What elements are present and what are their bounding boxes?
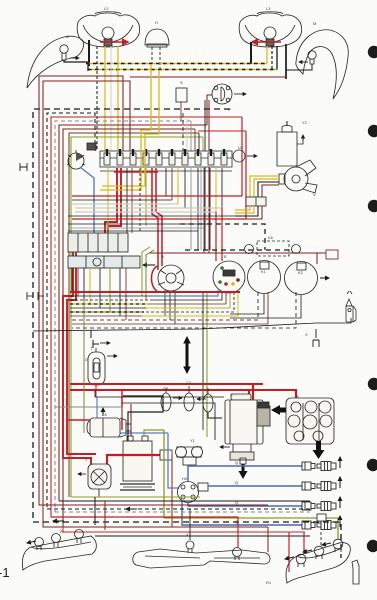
right taillight body [286, 543, 350, 583]
rear harness black [59, 500, 310, 502]
maroon engine vertical [171, 455, 173, 527]
right bucket ground wire [250, 42, 252, 64]
svg-text:X: X [305, 332, 308, 337]
blue-gray line engine [97, 397, 168, 433]
connector K left b [38, 292, 44, 300]
tiny reference labels [60, 6, 316, 585]
wires below horn circles [72, 292, 258, 320]
red drop to generator [248, 390, 250, 404]
left headlight bulb [102, 27, 114, 39]
lock bottom drops [165, 290, 175, 324]
right tail socket 3 [333, 539, 343, 552]
black wires to senders [95, 390, 224, 397]
right turn signal wire drop [286, 64, 312, 70]
connector K left a [27, 292, 33, 300]
wire from sketch down-left [316, 318, 351, 323]
left tail socket 2 [52, 534, 61, 548]
Q2 arrow [197, 398, 206, 400]
svg-text:J: J [85, 457, 87, 462]
svg-text:R: R [60, 529, 63, 534]
arrow left tail a [126, 508, 137, 510]
maroon drop center bumper [267, 527, 269, 552]
instrument cluster [68, 233, 140, 268]
flasher relay K6 [245, 241, 301, 256]
green wire down engine [163, 430, 165, 518]
wires below light switch turning left [152, 290, 218, 296]
wiper wires below T1 [235, 206, 250, 210]
spark plug wire 3 [188, 503, 303, 506]
sender red stub [95, 385, 97, 397]
left taillight body [22, 536, 96, 570]
svg-text:S: S [180, 80, 183, 85]
fuse box [100, 151, 232, 171]
right tail socket 1 [296, 554, 306, 567]
left tail socket 1 [35, 538, 44, 551]
svg-text:M: M [313, 21, 316, 26]
battery terminal wires [130, 404, 132, 436]
red trunk pair below fuse box [152, 168, 158, 270]
svg-text:L2: L2 [104, 6, 109, 11]
ignition coil T [87, 418, 131, 437]
svg-text:Q: Q [235, 460, 238, 465]
svg-text:X2: X2 [186, 532, 192, 537]
svg-text:K6: K6 [268, 235, 274, 240]
svg-text:E: E [224, 254, 227, 259]
svg-text:K1: K1 [261, 269, 267, 274]
washer canister Y2 [277, 132, 297, 166]
right front turn signal fender [296, 30, 348, 99]
choke Q2 [203, 388, 213, 412]
svg-text:K2: K2 [298, 270, 304, 275]
red drop center socket [237, 517, 239, 548]
red engine feed top [70, 383, 263, 385]
svg-text:H: H [155, 20, 158, 25]
svg-text:H4: H4 [182, 476, 188, 481]
svg-text:U1: U1 [238, 145, 244, 150]
right tail arrows [285, 557, 294, 559]
svg-text:Y1: Y1 [190, 438, 196, 443]
binding dot 6 [367, 540, 377, 552]
dashed bundle above horns [185, 249, 290, 251]
red arrow in right bucket [252, 41, 281, 43]
red drop to relay panel [295, 390, 297, 403]
yellow elbows at fuse box [100, 64, 151, 190]
wire yellow drop left bucket b [117, 46, 119, 151]
binding dot 5 [367, 459, 377, 471]
rear harness maroon 3 [63, 527, 305, 532]
wire yellow drop left bucket a [104, 46, 106, 151]
small box right of circles [326, 250, 338, 259]
arrow at left turn signal [70, 57, 79, 59]
connector T1 [246, 197, 266, 206]
yellow pair in bundle [142, 307, 196, 309]
distributor arrow [234, 93, 246, 95]
dark drop right tail [320, 522, 322, 546]
cluster drop wires [71, 268, 73, 292]
wire dash drop left bucket [96, 46, 98, 151]
horn H [145, 29, 169, 45]
relay panel B [286, 398, 334, 444]
connector K upper left [20, 163, 27, 171]
svg-text:T2: T2 [92, 144, 97, 149]
verticals below distributor [204, 100, 206, 250]
red box left drop [121, 390, 123, 430]
coil ground arrow [102, 408, 104, 416]
red wire wrapping ignition lock [151, 266, 158, 291]
rear harness olive [71, 496, 200, 498]
blue wire into distributor [168, 433, 179, 488]
binding dot 4 [368, 378, 377, 390]
arrow at right turn signal [299, 61, 308, 63]
binding dot 3 [368, 200, 377, 212]
trunk wire red [51, 117, 242, 517]
right turn signal lamp L4 [308, 51, 316, 59]
svg-text:C2: C2 [186, 380, 192, 385]
harness bundle brown [70, 315, 142, 317]
horn relay circle 1 [248, 261, 281, 294]
green wires near lock [142, 247, 150, 296]
thick red harness top [70, 291, 240, 293]
svg-text:U: U [66, 34, 69, 39]
rear harness maroon 1 [39, 500, 268, 505]
clock with arrow right of fuse box [233, 150, 245, 162]
connector X right [313, 329, 319, 347]
ignition switch [67, 150, 85, 169]
trunk wire black dashed [47, 113, 95, 509]
svg-text:Q: Q [235, 519, 238, 524]
left bucket ground wire [88, 40, 90, 66]
wiper motor V [279, 160, 317, 193]
wire turn signal black [64, 60, 88, 71]
arrow at left tail socket1 [27, 541, 36, 543]
center bumper piece [133, 541, 270, 568]
trunk wire maroon 4 [63, 129, 195, 527]
red engine feed bottom [70, 389, 297, 391]
wire q2 down [208, 412, 222, 418]
washer canister top wire [286, 121, 288, 126]
gray-blue vertical below fuse area [200, 168, 202, 250]
fuse drop wires [107, 168, 109, 233]
steering ignition switch D [158, 265, 184, 291]
distributor P [212, 84, 232, 104]
connector T2 [87, 143, 96, 150]
air valve Y1 [176, 447, 203, 466]
spark plug 2 [302, 482, 336, 491]
harness weave horizontals [72, 195, 242, 197]
horn leads [151, 47, 153, 64]
svg-text:T6: T6 [102, 412, 107, 417]
spark plug wire 2 [208, 485, 303, 487]
gray wire to coil [55, 407, 122, 418]
red arrow in left bucket [100, 41, 128, 43]
wire white drop left bucket [110, 46, 112, 151]
harness bundle yellow [70, 303, 148, 305]
left tail socket 3 [75, 530, 84, 544]
right corner stub sketch [352, 560, 359, 584]
svg-text:R1: R1 [266, 580, 272, 585]
body outline dashed left vertical [33, 109, 230, 522]
svg-text:D: D [161, 254, 164, 259]
trunk wire brown [69, 133, 199, 497]
black loop wire [123, 396, 163, 442]
svg-text:A: A [118, 434, 121, 439]
svg-text:-1: -1 [0, 565, 10, 580]
harness bundle dark [70, 307, 146, 309]
long chassis line to engine [33, 323, 316, 331]
svg-text:B: B [296, 394, 299, 399]
red tie bar below fuse box [114, 171, 158, 173]
harness bundle dash white/black [70, 299, 150, 301]
pump bottom wire [98, 489, 100, 497]
olive drop mid [83, 300, 85, 433]
green harness to rear [164, 518, 338, 539]
oil pressure sender G2 [161, 388, 182, 411]
yellow/black striped harness top run 1 [86, 63, 267, 65]
right tail socket 2 [314, 546, 324, 559]
svg-text:Q: Q [235, 500, 238, 505]
spark plug 4 [302, 521, 336, 530]
harness bundle to rear: black [70, 295, 152, 297]
rear harness black low [95, 535, 310, 537]
left turn signal lamp L1 [60, 45, 68, 53]
left headlight bucket L2 [77, 13, 139, 47]
right turn signal feed vertical [285, 44, 287, 79]
corner block feeds into fuse box [182, 113, 184, 151]
maroon feed to right signal [130, 76, 286, 78]
arrow left tail b [53, 520, 64, 522]
binding dot 2 [368, 125, 377, 137]
generator arrow [220, 446, 230, 448]
distributor wire maroon [207, 95, 212, 125]
relay panel ground arrow [313, 441, 325, 459]
arrow left of ignition lock [143, 264, 155, 266]
cable D double arrow [183, 336, 191, 374]
spark plug 1 [302, 462, 336, 471]
left front turn signal fender [27, 36, 84, 88]
red feed main A2 [67, 168, 121, 454]
dashed bundle mid [180, 224, 265, 250]
distributor cap H [178, 482, 209, 503]
svg-text:Y2: Y2 [302, 120, 308, 125]
binding dot 1 [368, 46, 377, 58]
svg-text:V: V [313, 192, 316, 197]
green drop from switch area [206, 293, 208, 437]
arrow right of circle 2 [320, 277, 329, 279]
red from pump to T junction [107, 455, 162, 464]
svg-text:C: C [230, 392, 233, 397]
connector on chassis line [91, 330, 99, 348]
right bucket wire drops [266, 46, 268, 64]
thick cable regulator to relay panel [279, 408, 298, 413]
generator with regulator C [225, 394, 270, 460]
svg-text:P: P [228, 107, 231, 112]
svg-text:G2: G2 [163, 386, 169, 391]
svg-text:Q: Q [235, 480, 238, 485]
trunk wire gray dashed [55, 121, 191, 512]
rear harness red [51, 516, 238, 518]
blue wire from ignition switch [80, 167, 94, 250]
right headlight bucket L3 [239, 13, 301, 47]
red feed to coil [67, 419, 90, 421]
trunk wire maroon 3 (to distributor) [59, 125, 207, 501]
yellow/black striped harness top run 2 [88, 69, 277, 71]
fuel gauge sender Y [88, 348, 117, 385]
left tail drops [94, 497, 96, 525]
trunk wire maroon 2 [43, 81, 130, 504]
light switch E [213, 261, 245, 293]
spark plug wire 4 [182, 500, 303, 525]
svg-text:L3: L3 [266, 6, 271, 11]
right headlight bulb [264, 27, 276, 39]
temp sender C2 [184, 386, 194, 411]
spark plug wire 1 [188, 466, 303, 481]
body outline dashed bottom [33, 522, 341, 558]
wiper motor harness [250, 176, 279, 197]
fuel pump canister J [78, 464, 111, 489]
horn relay circle 2 [285, 262, 318, 295]
rear harness maroon 2 [43, 504, 268, 527]
harness bundle green [70, 311, 144, 313]
trunk wire maroon 1 [39, 76, 123, 500]
battery A [120, 436, 155, 490]
spark plug 3 [302, 502, 336, 511]
starter bolt [240, 458, 246, 464]
red drops right tail [288, 532, 290, 572]
license light drop [189, 509, 191, 540]
wiper switch S [176, 88, 187, 102]
maroon feed to horn circle [150, 253, 326, 264]
trunk wire olive [71, 137, 203, 497]
rear harness black dash [47, 508, 310, 510]
rear harness gray dash [55, 511, 310, 513]
svg-text:G: G [85, 357, 88, 362]
red feed main A1 [63, 168, 117, 465]
fuel filler sketch right [346, 291, 356, 322]
